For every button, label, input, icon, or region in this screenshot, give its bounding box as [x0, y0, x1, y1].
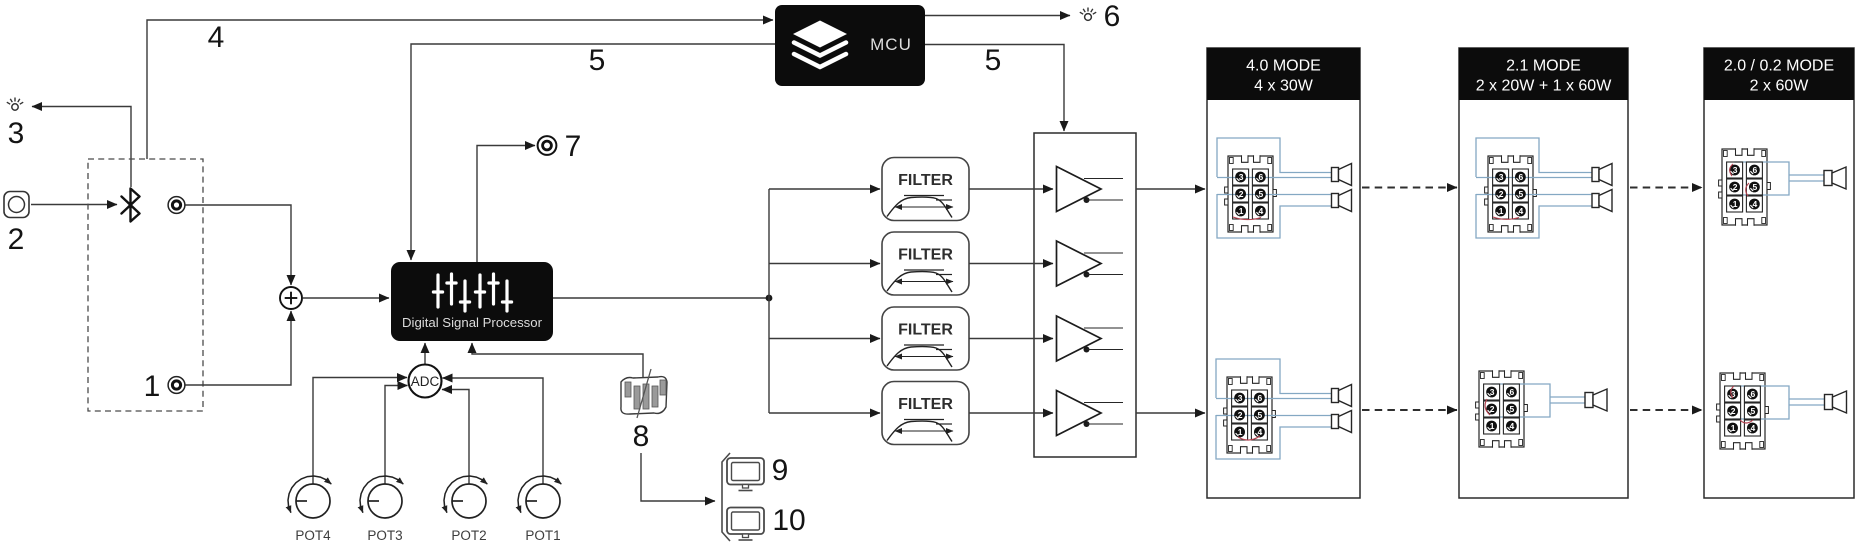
LED indicator (item 6) — [1080, 8, 1096, 21]
pin 5 P1 top — [1252, 186, 1268, 202]
svg-text:Digital Signal Processor: Digital Signal Processor — [402, 315, 543, 330]
connector body P1 bottom — [1224, 376, 1276, 454]
amplifier triangle 4 — [1057, 391, 1102, 436]
panel 4.0 MODE — [1207, 48, 1360, 498]
svg-text:1: 1 — [1239, 206, 1244, 216]
connector body P2 top — [1485, 155, 1537, 233]
amp 3 output upper — [1084, 327, 1123, 329]
speaker P2 top lower — [1592, 190, 1612, 212]
svg-text:4.0 MODE: 4.0 MODE — [1246, 58, 1321, 75]
pin 2 P2 top — [1493, 186, 1509, 202]
bluetooth symbol — [122, 189, 140, 222]
blue wire loop top P1 bottom — [1216, 359, 1332, 398]
aux source icon (item 2) — [4, 192, 29, 218]
potentiometer POT4 — [288, 476, 331, 543]
wire aux to bluetooth — [31, 204, 117, 206]
wire RCA top to summing node — [186, 205, 292, 285]
svg-text:5: 5 — [1519, 189, 1524, 199]
blue wire loop top P1 top — [1217, 138, 1332, 177]
svg-text:4: 4 — [1258, 427, 1263, 437]
svg-text:MCU: MCU — [870, 35, 912, 54]
blue wire loop bottom P1 bottom — [1216, 415, 1332, 459]
wire filter 3 to amplifier — [969, 338, 1053, 340]
blue wire row1 P1 bottom — [1216, 398, 1332, 400]
blue wire row1 P2 top — [1476, 177, 1592, 179]
blue bridge loop P3 top — [1735, 162, 1790, 195]
svg-text:5: 5 — [1510, 404, 1515, 414]
pin 1 P3 bottom — [1725, 420, 1741, 436]
pin 3 P3 top — [1727, 162, 1743, 178]
wire branch to filter 3 — [769, 338, 880, 340]
dashed wire panel1 to panel2 top — [1362, 187, 1457, 189]
pin 1 P1 bottom — [1232, 424, 1248, 440]
svg-text:5: 5 — [1259, 189, 1264, 199]
speaker P2 top upper — [1592, 164, 1612, 186]
pin 6 P1 bottom — [1251, 390, 1267, 406]
red mark P1 top — [1233, 217, 1261, 220]
pin 4 P3 bottom — [1744, 420, 1760, 436]
dashed box bluetooth module — [88, 159, 203, 411]
svg-text:5: 5 — [1753, 182, 1758, 192]
pin 4 P2 top — [1512, 203, 1528, 219]
potentiometer POT2 — [444, 476, 487, 543]
speaker P1 top upper — [1332, 164, 1352, 186]
pin 1 P2 bottom — [1484, 418, 1500, 434]
svg-text:3: 3 — [1499, 172, 1504, 182]
blue wire row2 P1 top — [1217, 194, 1332, 196]
pin 5 P1 bottom — [1251, 407, 1267, 423]
pin 5 P3 bottom — [1744, 403, 1760, 419]
wire POT2 to ADC — [442, 390, 469, 485]
svg-text:POT2: POT2 — [451, 528, 486, 543]
node junction dot — [766, 295, 773, 302]
svg-text:4: 4 — [1751, 423, 1756, 433]
svg-text:2: 2 — [1731, 406, 1736, 416]
wire amplifier to 4.0 mode panel bottom — [1136, 412, 1205, 414]
wire POT3 to ADC — [385, 386, 408, 485]
svg-text:5: 5 — [985, 44, 1002, 77]
wire filter 4 to amplifier — [969, 412, 1053, 414]
amp 4 output lower — [1084, 421, 1124, 427]
ADC circle — [409, 365, 442, 398]
pin 1 P3 top — [1727, 196, 1743, 212]
svg-text:ADC: ADC — [411, 374, 440, 389]
speaker P3 top — [1824, 167, 1846, 189]
wire ADC to DSP — [424, 343, 426, 364]
wire DSP output to node — [553, 297, 769, 299]
svg-text:3: 3 — [1490, 387, 1495, 397]
pin 6 P1 top — [1252, 169, 1268, 185]
pin 3 P1 top — [1233, 169, 1249, 185]
MCU layers icon — [793, 21, 847, 68]
brace for display options — [722, 453, 730, 541]
filter block 4 — [882, 382, 969, 445]
wire DSP to connector 7 — [477, 146, 535, 263]
svg-text:1: 1 — [1490, 421, 1495, 431]
DSP equalizer icon — [433, 274, 511, 311]
svg-text:6: 6 — [1259, 172, 1264, 182]
svg-text:4: 4 — [1510, 421, 1515, 431]
svg-text:FILTER: FILTER — [898, 322, 953, 339]
pin 3 P2 bottom — [1484, 384, 1500, 400]
pin 6 P2 top — [1512, 169, 1528, 185]
speaker P1 bottom lower — [1332, 411, 1352, 433]
wire MCU to amplifier block — [925, 45, 1064, 132]
svg-text:2 x 60W: 2 x 60W — [1750, 78, 1810, 95]
connector jack 7 — [538, 136, 557, 155]
pin 4 P1 bottom — [1251, 424, 1267, 440]
pin 1 P1 top — [1233, 203, 1249, 219]
svg-text:4: 4 — [1753, 199, 1758, 209]
connector body P1 top — [1225, 155, 1277, 233]
amp 2 output upper — [1084, 252, 1123, 254]
svg-text:3: 3 — [1733, 165, 1738, 175]
svg-text:4 x 30W: 4 x 30W — [1254, 78, 1314, 95]
wire branch to filter 1 — [769, 188, 880, 190]
red mark P3 bottom — [1731, 386, 1734, 398]
LED indicator (item 3) — [7, 98, 23, 111]
amplifier block — [1034, 133, 1136, 457]
pin 5 P2 bottom — [1503, 401, 1519, 417]
pin 1 P2 top — [1493, 203, 1509, 219]
svg-text:6: 6 — [1519, 172, 1524, 182]
wire summing node to DSP — [303, 297, 390, 299]
wire item 8 to display options — [641, 453, 715, 501]
wire amplifier to 4.0 mode panel top — [1136, 188, 1205, 190]
connector body P3 bottom — [1717, 372, 1769, 450]
wire branch to filter 4 — [769, 412, 880, 414]
blue wire row2 P1 bottom — [1216, 415, 1332, 417]
wire POT1 to ADC — [443, 378, 544, 484]
pin 2 P1 bottom — [1232, 407, 1248, 423]
wire filter 1 to amplifier — [969, 188, 1053, 190]
svg-text:3: 3 — [1238, 393, 1243, 403]
blue wire loop bottom P1 top — [1217, 194, 1332, 238]
amplifier triangle 3 — [1057, 316, 1102, 361]
svg-text:7: 7 — [565, 130, 582, 163]
svg-text:2: 2 — [1238, 410, 1243, 420]
svg-text:1: 1 — [144, 370, 161, 403]
pin 2 P2 bottom — [1484, 401, 1500, 417]
red mark P3 top — [1730, 164, 1733, 176]
pin 5 P2 top — [1512, 186, 1528, 202]
display icon (item 10) — [727, 508, 764, 541]
svg-text:6: 6 — [1104, 0, 1121, 33]
pin 3 P2 top — [1493, 169, 1509, 185]
svg-text:5: 5 — [1258, 410, 1263, 420]
svg-text:2: 2 — [1239, 189, 1244, 199]
dashed wire panel1 to panel2 bottom — [1362, 409, 1457, 411]
svg-text:2: 2 — [1490, 404, 1495, 414]
pin 6 P2 bottom — [1503, 384, 1519, 400]
svg-text:FILTER: FILTER — [898, 247, 953, 264]
filter block 1 — [882, 158, 969, 221]
dashed wire panel2 to panel3 bottom — [1630, 409, 1702, 411]
red mark P2 bottom — [1485, 399, 1490, 415]
connector body P2 bottom — [1476, 370, 1528, 448]
svg-text:2: 2 — [1499, 189, 1504, 199]
wire distribution trunk — [768, 189, 770, 413]
svg-text:4: 4 — [1519, 206, 1524, 216]
RCA jack bottom (item 1) — [168, 377, 185, 394]
blue bridge loop P3 bottom — [1733, 386, 1790, 419]
svg-text:10: 10 — [772, 504, 805, 537]
svg-text:5: 5 — [1751, 406, 1756, 416]
pin 4 P2 bottom — [1503, 418, 1519, 434]
svg-text:6: 6 — [1258, 393, 1263, 403]
amplifier triangle 1 — [1057, 167, 1102, 212]
connector body P3 top — [1719, 148, 1771, 226]
svg-text:6: 6 — [1751, 389, 1756, 399]
amp 1 output lower — [1084, 197, 1124, 203]
svg-text:FILTER: FILTER — [898, 172, 953, 189]
svg-text:4: 4 — [1259, 206, 1264, 216]
panel 2.0/0.2 MODE — [1704, 48, 1854, 498]
blue speaker feed P3 bottom — [1789, 398, 1825, 400]
speaker P1 top lower — [1332, 190, 1352, 212]
pin 2 P3 bottom — [1725, 403, 1741, 419]
svg-text:3: 3 — [8, 117, 25, 150]
svg-text:2: 2 — [1733, 182, 1738, 192]
wire branch to filter 2 — [769, 263, 880, 265]
display icon (item 9) — [727, 458, 764, 491]
potentiometer POT3 — [360, 476, 403, 543]
wire 4 bluetooth module to MCU — [147, 20, 773, 159]
wire RCA bottom to summing node — [186, 311, 292, 385]
panel 2.1 MODE — [1459, 48, 1628, 498]
blue wire loop bottom P2 top — [1476, 194, 1592, 238]
wire 5 MCU to DSP — [411, 44, 775, 260]
svg-text:POT3: POT3 — [367, 528, 402, 543]
blue speaker feed P2 bottom — [1550, 396, 1585, 398]
svg-text:9: 9 — [772, 454, 789, 487]
amp 3 output lower — [1084, 347, 1124, 353]
svg-text:1: 1 — [1733, 199, 1738, 209]
pin 2 P1 top — [1233, 186, 1249, 202]
speaker P3 bottom — [1825, 391, 1847, 413]
pin 4 P3 top — [1746, 196, 1762, 212]
pin 4 P1 top — [1252, 203, 1268, 219]
svg-text:FILTER: FILTER — [898, 396, 953, 413]
blue wire row2 P2 top — [1476, 194, 1592, 196]
speaker P2 bottom — [1585, 389, 1607, 411]
summing junction — [280, 287, 302, 309]
svg-text:4: 4 — [208, 21, 225, 54]
card edge connector icon (item 8) — [621, 369, 667, 418]
amp 1 output upper — [1084, 178, 1123, 180]
wire bluetooth to LED 3 — [32, 107, 131, 188]
blue bridge loop P2 bottom — [1492, 384, 1551, 417]
svg-text:1: 1 — [1238, 427, 1243, 437]
svg-text:2: 2 — [8, 223, 25, 256]
pin 6 P3 top — [1746, 162, 1762, 178]
pin 5 P3 top — [1746, 179, 1762, 195]
svg-text:8: 8 — [633, 420, 650, 453]
svg-text:6: 6 — [1753, 165, 1758, 175]
svg-text:POT4: POT4 — [295, 528, 331, 543]
RCA jack top — [168, 197, 185, 214]
blue wire row1 P1 top — [1217, 177, 1332, 179]
pin 6 P3 bottom — [1744, 386, 1760, 402]
svg-text:6: 6 — [1510, 387, 1515, 397]
speaker P1 bottom upper — [1332, 385, 1352, 407]
svg-text:2.0 / 0.2 MODE: 2.0 / 0.2 MODE — [1724, 58, 1834, 75]
blue wire loop top P2 top — [1476, 138, 1592, 177]
red mark P1 bottom — [1238, 436, 1260, 440]
blue speaker feed P3 top — [1789, 174, 1824, 176]
wire filter 2 to amplifier — [969, 263, 1053, 265]
MCU block — [775, 5, 925, 86]
svg-text:3: 3 — [1239, 172, 1244, 182]
dashed wire panel2 to panel3 top — [1630, 187, 1702, 189]
amplifier triangle 2 — [1057, 241, 1102, 286]
pin 2 P3 top — [1727, 179, 1743, 195]
pin 3 P3 bottom — [1725, 386, 1741, 402]
pin 3 P1 bottom — [1232, 390, 1248, 406]
amp 2 output lower — [1084, 272, 1124, 278]
svg-text:2.1 MODE: 2.1 MODE — [1506, 58, 1581, 75]
potentiometer POT1 — [518, 476, 561, 543]
wire card-edge connector 8 to DSP — [472, 343, 643, 377]
svg-text:1: 1 — [1731, 423, 1736, 433]
svg-text:1: 1 — [1499, 206, 1504, 216]
filter block 2 — [882, 232, 969, 295]
amp 4 output upper — [1084, 402, 1123, 404]
svg-text:POT1: POT1 — [525, 528, 560, 543]
red mark P2 top — [1493, 217, 1519, 219]
svg-text:2 x 20W + 1 x 60W: 2 x 20W + 1 x 60W — [1476, 78, 1613, 95]
svg-text:5: 5 — [589, 44, 606, 77]
filter block 3 — [882, 307, 969, 370]
DSP block — [391, 262, 553, 341]
wire POT4 to ADC — [313, 378, 407, 485]
wire MCU to LED 6 — [925, 15, 1070, 17]
